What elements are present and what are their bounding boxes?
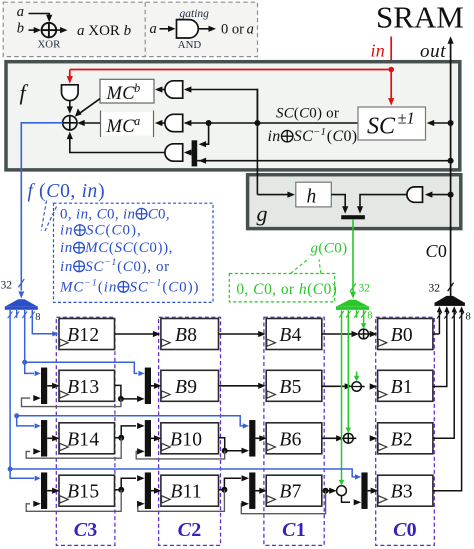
- wire B14 out to dot: [115, 437, 122, 439]
- pass bar C3 row 3: [41, 420, 47, 457]
- svg-text:32: 32: [429, 283, 441, 295]
- wire B14 up-jog to B10 bar top: [121, 426, 136, 438]
- svg-text:in: in: [60, 223, 74, 239]
- wire f output (blue): [21, 123, 62, 291]
- register B1: [378, 370, 433, 401]
- svg-text:8: 8: [466, 312, 471, 323]
- svg-text:h: h: [307, 187, 317, 208]
- wire F1 to XOR: [69, 101, 71, 109]
- svg-text:b: b: [134, 81, 140, 95]
- arrow bar to register C2 row 2: [151, 385, 156, 387]
- red arrow into AND gate F1: [69, 70, 71, 79]
- svg-text:SC: SC: [86, 223, 106, 239]
- register B11: [161, 475, 219, 506]
- svg-text:0,: 0,: [60, 181, 81, 202]
- svg-text:0,: 0,: [236, 281, 252, 298]
- svg-text:a: a: [134, 114, 140, 128]
- pass bar in g (horizontal): [341, 215, 365, 219]
- arrow F3 out to MCa: [159, 122, 165, 124]
- junction dot B10 out: [222, 448, 228, 454]
- AND gate F3 (to MCa): [165, 114, 183, 131]
- register B5: [266, 370, 322, 401]
- wire B7 out to circle row4: [321, 490, 324, 492]
- blue line 4 to B12: [32, 310, 53, 334]
- wire B5 to circle row2: [322, 385, 346, 387]
- blue jog into B14 bar: [17, 416, 34, 426]
- svg-text:in: in: [123, 206, 135, 222]
- register B8: [161, 319, 219, 350]
- register B7: [266, 475, 322, 506]
- svg-text:C2: C2: [178, 519, 202, 541]
- blue bus slash 32: [18, 279, 24, 287]
- wire a to XOR: [29, 14, 50, 18]
- black bus up arrows: [437, 306, 442, 312]
- wire B1 to C0 bus: [433, 311, 447, 387]
- red arrow into SC box: [390, 70, 392, 100]
- column C2 dashed box: [159, 317, 221, 545]
- wire B15 up-jog to B11 bar top: [121, 478, 136, 490]
- svg-text:8: 8: [367, 311, 372, 322]
- svg-text:b: b: [124, 23, 132, 39]
- wire g output (green): [352, 219, 354, 291]
- svg-text:0,: 0,: [158, 206, 170, 222]
- legend XOR gate: [42, 23, 57, 38]
- blue bus splitter: [6, 299, 38, 306]
- svg-text:SC: SC: [114, 240, 133, 256]
- svg-text:C: C: [253, 281, 264, 298]
- register B4: [266, 319, 322, 350]
- svg-text:0)): 0)): [179, 279, 199, 295]
- arrow bar to register C3 row 3: [47, 437, 52, 439]
- green line row4: [341, 310, 343, 480]
- arrow XOR row3 to B2: [353, 437, 356, 439]
- svg-text:SC: SC: [130, 279, 149, 295]
- loop under B7 (self feedback): [241, 491, 325, 514]
- wire B13 out jog down to dot: [115, 385, 121, 399]
- block g frame: [248, 175, 461, 229]
- svg-text:B13: B13: [67, 377, 99, 398]
- MC^b box: [100, 79, 154, 103]
- register B13: [59, 370, 115, 401]
- svg-text:MC: MC: [59, 279, 84, 295]
- svg-text:b: b: [17, 21, 24, 37]
- svg-text:C: C: [313, 281, 324, 298]
- svg-text:0: 0: [438, 241, 447, 261]
- blue line 3 to row 2: [24, 310, 26, 362]
- register B15: [59, 475, 115, 506]
- wire MCb to XOR (diagonal): [80, 99, 101, 114]
- green bus slash 32: [350, 283, 356, 291]
- wire B9 to B5: [219, 385, 260, 387]
- wire B2 to C0 bus: [433, 311, 454, 438]
- svg-text:in: in: [76, 206, 88, 222]
- register B9: [161, 370, 219, 401]
- AND gate F2 (to MCb): [165, 81, 183, 98]
- register B2: [378, 423, 433, 454]
- svg-text:B1: B1: [391, 377, 413, 398]
- svg-text:B9: B9: [175, 377, 197, 398]
- svg-text:): ): [98, 181, 105, 202]
- loop under B14 (self feedback): [26, 438, 121, 459]
- svg-text:gating: gating: [180, 8, 210, 20]
- arrow B10 to B6 bar bottom: [225, 450, 243, 452]
- wire circle row4 to B3 bar bottom: [342, 496, 351, 503]
- svg-text:or: or: [326, 106, 339, 122]
- svg-text:XOR: XOR: [85, 23, 124, 39]
- legend divider: [144, 2, 146, 56]
- wire out (vertical, arrow up at top): [450, 41, 452, 296]
- svg-text:B3: B3: [391, 482, 413, 503]
- svg-text:C: C: [111, 223, 122, 239]
- arrow bar to register C1 row 4: [255, 490, 260, 492]
- register B10: [161, 423, 219, 454]
- svg-text:C: C: [168, 279, 179, 295]
- pass bar C1 row 3: [249, 420, 255, 457]
- svg-text:0),: 0),: [122, 223, 141, 239]
- svg-text:0): 0): [334, 241, 347, 257]
- svg-text:0 or: 0 or: [221, 22, 248, 38]
- arrow bar to register C0 row 4: [368, 490, 373, 492]
- register B14: [59, 423, 115, 454]
- svg-text:a: a: [77, 23, 85, 39]
- svg-text:0),: 0),: [133, 259, 156, 275]
- pass transistor bar in f: [192, 140, 198, 166]
- svg-text:SC: SC: [294, 128, 313, 145]
- svg-text:0,: 0,: [264, 281, 280, 298]
- loop under B11 (self feedback): [138, 490, 225, 512]
- svg-text:0,: 0,: [107, 206, 123, 222]
- pass bar C2 row 2: [145, 368, 151, 405]
- svg-text:SRAM: SRAM: [376, 0, 464, 35]
- wire B11 up-jog to B7 bar top: [224, 478, 241, 490]
- legend XOR output wire: [56, 29, 61, 31]
- svg-text:out: out: [420, 41, 446, 62]
- green line row1: [363, 310, 365, 324]
- svg-text:B10: B10: [170, 429, 202, 450]
- blue row2 horizontal: [25, 362, 138, 373]
- blue row3 horizontal: [17, 416, 243, 426]
- arrow F2 out to MCb: [159, 89, 165, 91]
- junction dot SC net: [254, 120, 260, 126]
- blue line 1 to row 4: [9, 310, 11, 469]
- SC box: [358, 107, 426, 140]
- black bus slash 32: [448, 283, 454, 291]
- blue sub-line slashes: [8, 311, 13, 318]
- h box: [296, 182, 332, 207]
- svg-text:B12: B12: [67, 325, 99, 346]
- green options callout tail: [291, 258, 310, 273]
- wire B10 out jog down to dot: [219, 438, 225, 451]
- AND gate F1 (downward): [62, 85, 79, 101]
- green line row2 (stub at circle): [356, 372, 358, 377]
- svg-text:B14: B14: [67, 429, 99, 450]
- svg-text:±1: ±1: [398, 109, 415, 128]
- svg-text:C: C: [139, 240, 150, 256]
- svg-text:C: C: [332, 128, 343, 145]
- green sub-line slashes: [339, 311, 344, 318]
- svg-text:in: in: [371, 41, 386, 61]
- wire B6 to XOR row3: [322, 437, 337, 439]
- junction dot B11 out: [221, 487, 227, 493]
- svg-text:h: h: [299, 281, 307, 298]
- arrow SC net into h: [257, 194, 290, 196]
- wire MCa to XOR: [81, 122, 101, 124]
- junction dot on out line at 160.7: [448, 158, 454, 164]
- svg-text:in: in: [60, 259, 73, 275]
- arrow bar to register C3 row 2: [47, 385, 52, 387]
- svg-text:SC: SC: [85, 259, 104, 275]
- XOR gate in f: [63, 116, 77, 130]
- register B12: [59, 319, 115, 350]
- junction dot B15 out: [118, 487, 124, 493]
- blue jog into B15 bar: [10, 469, 34, 478]
- svg-text:0): 0): [343, 128, 357, 145]
- svg-text:C: C: [148, 206, 159, 222]
- junction dot B13 out: [118, 396, 124, 402]
- pass bar C3 row 4: [41, 472, 47, 509]
- svg-text:C1: C1: [282, 519, 306, 541]
- wire B8 to B4: [219, 333, 260, 335]
- AND gate in g: [407, 187, 423, 202]
- wire B3 to C0 bus: [433, 311, 462, 491]
- wire B0 to C0 bus: [433, 333, 440, 335]
- blue line 2 stub at splitter: [16, 310, 18, 318]
- svg-text:AND: AND: [178, 39, 202, 51]
- wire SC net down to g: [256, 89, 258, 195]
- svg-text:8: 8: [35, 312, 40, 323]
- svg-text:SC: SC: [276, 106, 295, 122]
- svg-text:C3: C3: [74, 519, 98, 541]
- svg-text:in: in: [60, 240, 73, 256]
- arrow B13 to B9 bar bottom: [121, 398, 138, 400]
- red wire horizontal from in: [70, 69, 391, 71]
- svg-text:−1: −1: [84, 278, 97, 289]
- wire in (red vertical): [390, 37, 392, 70]
- column C3 dashed box: [56, 317, 115, 545]
- svg-text:32: 32: [1, 280, 13, 292]
- register B6: [266, 423, 322, 454]
- wire B4 to XOR row1: [322, 333, 353, 335]
- svg-text:B4: B4: [279, 325, 301, 346]
- XOR row3: [343, 433, 353, 443]
- wire B12 to B8: [115, 333, 154, 335]
- svg-text:−1: −1: [149, 278, 162, 289]
- wire B11 out to dot: [219, 489, 225, 491]
- svg-text:(: (: [34, 181, 46, 202]
- svg-text:C: C: [46, 181, 60, 202]
- svg-text:B11: B11: [170, 482, 202, 503]
- black C0 bus splitter: [435, 296, 464, 303]
- svg-text:B5: B5: [279, 377, 301, 398]
- arrow bar to register C2 row 3: [151, 437, 156, 439]
- wire SC output net: [185, 122, 358, 124]
- svg-text:a: a: [150, 21, 157, 37]
- arrow out line into g AND: [428, 194, 451, 196]
- svg-text:MC: MC: [106, 117, 136, 137]
- arrow out-line into SC right side: [430, 122, 451, 124]
- junction dot B14 out: [118, 435, 124, 441]
- svg-text:B8: B8: [175, 325, 197, 346]
- svg-text:a: a: [247, 22, 254, 38]
- column C0 dashed box: [376, 317, 435, 545]
- svg-text:C: C: [97, 206, 108, 222]
- wire out-line to bar (bottom feedback): [197, 160, 450, 162]
- svg-text:in: in: [82, 181, 98, 202]
- svg-text:B7: B7: [279, 482, 301, 503]
- wire a2 to AND: [160, 28, 170, 30]
- svg-text:C: C: [123, 259, 134, 275]
- branch up to F2 input: [190, 90, 258, 124]
- black sub-line slashes: [437, 312, 442, 319]
- blue line 2 junction dot row3: [14, 413, 19, 418]
- wire h to pass bar: [331, 195, 345, 209]
- svg-text:−1: −1: [313, 127, 326, 138]
- blue options dashed box: [54, 203, 214, 302]
- svg-text:SC: SC: [367, 114, 396, 140]
- svg-text:B2: B2: [391, 429, 413, 450]
- arrow XOR row1 to B0: [369, 333, 372, 335]
- wire B15 out to dot: [115, 489, 122, 491]
- blue jog into B13 bar: [25, 362, 34, 373]
- legend AND gate: [177, 20, 199, 38]
- svg-text:0): 0): [309, 106, 326, 122]
- loop under B10 (self feedback): [136, 451, 225, 459]
- svg-text:0): 0): [324, 281, 337, 298]
- register B0: [378, 319, 433, 350]
- svg-text:g: g: [311, 241, 319, 257]
- svg-text:)),: )),: [157, 240, 173, 256]
- svg-text:in: in: [268, 128, 281, 145]
- arrow bar to register C3 row 4: [47, 490, 52, 492]
- circle row4: [337, 486, 347, 496]
- pass bar C1 row 4: [249, 472, 255, 509]
- junction dot on out line in g: [448, 192, 454, 198]
- legend AND output wire: [199, 28, 210, 30]
- green bus splitter: [337, 300, 369, 307]
- svg-text:or: or: [281, 281, 299, 298]
- junction dot on out line at SC input: [448, 120, 454, 126]
- arrow bar to register C1 row 3: [255, 437, 260, 439]
- pass bar C2 row 3: [145, 420, 151, 457]
- green options dashed box: [229, 274, 334, 302]
- svg-text:MC: MC: [84, 240, 109, 256]
- arrow bar to register C2 row 4: [151, 490, 156, 492]
- svg-text:B6: B6: [279, 429, 301, 450]
- svg-text:,: ,: [88, 206, 96, 222]
- svg-text:0,: 0,: [60, 206, 76, 222]
- register B3: [378, 475, 433, 506]
- branch to pass-bar top input: [204, 123, 209, 144]
- svg-text:C: C: [324, 241, 335, 257]
- circle row2 (minus): [352, 382, 361, 391]
- arrow circle row2 to B1: [361, 386, 364, 388]
- blue row4 horizontal to B3: [10, 469, 355, 477]
- svg-text:XOR: XOR: [38, 38, 62, 50]
- svg-text:B0: B0: [391, 325, 413, 346]
- svg-text:or: or: [156, 259, 170, 275]
- wire g AND out to pass bar: [360, 195, 407, 209]
- green line row2 (stub at splitter): [356, 310, 358, 318]
- red junction dot: [388, 67, 394, 73]
- svg-text:MC: MC: [106, 84, 136, 104]
- blue options callout tail: [41, 201, 46, 231]
- svg-text:32: 32: [359, 283, 371, 295]
- svg-text:C0: C0: [393, 519, 417, 541]
- pass bar C3 row 2: [41, 368, 47, 405]
- svg-text:B15: B15: [67, 482, 99, 503]
- AND gate F4 (feedback): [165, 144, 183, 161]
- junction dot branch to pass bar: [206, 120, 212, 126]
- svg-text:a: a: [17, 4, 24, 20]
- legend box: [3, 2, 257, 56]
- pass bar C2 row 4: [145, 472, 151, 509]
- column C1 dashed box: [264, 317, 324, 545]
- MC^a box: [101, 112, 154, 135]
- wire b to XOR: [29, 29, 35, 31]
- wire F4 out to XOR bottom: [70, 137, 165, 153]
- svg-text:0: 0: [149, 240, 157, 256]
- pass bar C0 row 4: [361, 472, 367, 509]
- green line row3: [347, 310, 349, 428]
- arrow bar to F4 input: [184, 149, 192, 155]
- XOR row1: [359, 329, 369, 339]
- svg-text:in: in: [104, 279, 117, 295]
- block f frame: [6, 62, 460, 170]
- svg-text:g: g: [257, 201, 268, 226]
- loop under B15 (self feedback): [26, 490, 121, 512]
- svg-text:C: C: [426, 241, 439, 261]
- svg-text:−1: −1: [104, 257, 117, 268]
- loop under B13 (self feedback): [22, 398, 121, 407]
